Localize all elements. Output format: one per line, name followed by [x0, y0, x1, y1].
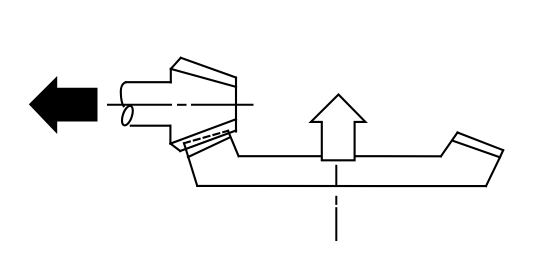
sleeve-to-tray left edge [184, 143, 197, 186]
tray right wall end edge [500, 150, 503, 157]
tray top edge right segment [355, 155, 441, 157]
cone left edge lower [169, 126, 171, 144]
lower sleeve left tip edge [170, 144, 180, 151]
tray right wall band lower line [452, 141, 500, 158]
tray right wall band upper line [458, 133, 504, 151]
lower sleeve middle edge [180, 131, 236, 152]
lower sleeve top edge [170, 119, 236, 143]
tray top edge left segment [239, 155, 322, 157]
cone left edge upper [170, 69, 172, 83]
lower sleeve hidden dashed line [184, 131, 228, 143]
tray bottom edge [197, 185, 486, 187]
cone peak edge [171, 58, 181, 69]
cone top chamfer lower line [171, 69, 236, 87]
cone right edge [235, 78, 237, 132]
cylinder left rounded end [121, 82, 126, 106]
cylinder open end ellipse [120, 104, 135, 126]
lower sleeve bottom edge [188, 138, 230, 158]
cone top chamfer upper line [181, 58, 236, 78]
hollow up arrow [311, 95, 366, 161]
cylinder barrel top edge [126, 81, 171, 83]
cylinder barrel bottom edge [131, 125, 171, 127]
tray right wall inner edge [441, 133, 458, 157]
tray right outer edge [486, 157, 500, 186]
sleeve-to-tray right edge [228, 131, 239, 156]
horizontal dash-dot centerline [108, 104, 253, 106]
solid left arrow [30, 77, 98, 133]
vertical dash-dot centerline [335, 166, 337, 240]
